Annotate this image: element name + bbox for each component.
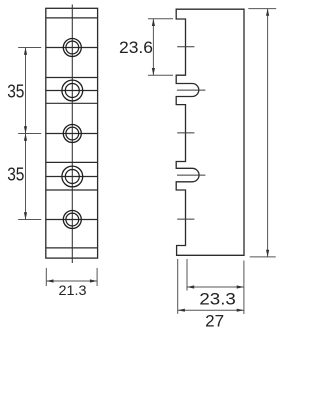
hole 2 outer circle <box>62 80 83 101</box>
dim 35 extension line at hole 5 <box>18 219 41 221</box>
dim 23.6 top arrow <box>152 19 155 26</box>
dim 27 left arrow <box>178 309 185 312</box>
overall height top arrow <box>266 9 269 16</box>
front view vertical centerline <box>71 5 73 264</box>
front view hole row line 2 <box>46 90 98 92</box>
front view top band line <box>46 17 98 19</box>
dim 35 arrow down at hole 3 <box>24 126 27 133</box>
side view hole 3 tick <box>177 132 194 134</box>
front view bottom band line <box>46 247 98 249</box>
hole 2 inner circle <box>65 84 79 98</box>
overall height bottom arrow <box>266 250 269 257</box>
front view band line above hole 2 <box>46 77 98 79</box>
dim 27 left extension line <box>177 259 179 314</box>
hole 5 outer circle <box>63 211 81 229</box>
svg-text:35: 35 <box>7 165 24 185</box>
dim 21.3 dimension line <box>46 280 97 282</box>
front view hole row line 3 <box>46 133 98 135</box>
front view body outline <box>46 8 98 258</box>
svg-text:35: 35 <box>7 81 24 101</box>
front view band line below hole 2 <box>46 102 98 104</box>
dim 35 dimension line <box>25 48 27 220</box>
dim 23.3 dimension line <box>187 286 244 288</box>
dim 23.6 top extension line <box>148 18 173 20</box>
svg-text:21.3: 21.3 <box>59 282 87 298</box>
dim 23.3 and 27 shared right extension line <box>243 261 245 315</box>
svg-text:23.3: 23.3 <box>199 289 236 308</box>
side view slot 1 centerline <box>177 89 205 91</box>
dim 21.3 left extension line <box>45 268 47 286</box>
dim 21.3 right arrow <box>90 279 97 282</box>
overall height bottom extension line <box>250 256 276 258</box>
svg-text:27: 27 <box>205 312 224 330</box>
front view band line above hole 4 <box>46 161 98 163</box>
dim 23.3 right arrow <box>237 285 244 288</box>
dim 23.6 bottom extension line <box>148 74 173 76</box>
dim 27 dimension line <box>178 309 244 311</box>
hole 3 outer circle <box>63 125 81 143</box>
hole 4 inner circle <box>65 170 79 184</box>
dim 23.6 bottom arrow <box>152 68 155 75</box>
dim 23.3 left extension line <box>186 259 188 291</box>
dim 35 extension line at hole 3 <box>18 133 41 135</box>
dim 21.3 right extension line <box>96 268 98 286</box>
overall height top extension line <box>248 8 276 10</box>
dim 23.3 left arrow <box>187 285 194 288</box>
svg-text:23.6: 23.6 <box>119 38 153 57</box>
front view hole row line 1 <box>46 47 98 49</box>
side view hole 1 tick <box>177 46 194 48</box>
dim 27 right arrow <box>237 309 244 312</box>
side view hole 5 tick <box>177 218 194 220</box>
front view hole row line 4 <box>46 176 98 178</box>
hole 1 outer circle <box>63 39 81 57</box>
hole 3 inner circle <box>66 127 79 140</box>
overall height dimension line <box>267 9 269 257</box>
front view hole row line 5 <box>46 219 98 221</box>
front view band line below hole 4 <box>46 189 98 191</box>
side view slot 2 centerline <box>177 174 205 176</box>
hole 5 inner circle <box>66 213 79 226</box>
dim 35 arrow up at hole 3 <box>24 134 27 141</box>
dim 35 extension line at hole 1 <box>18 47 41 49</box>
dim 21.3 left arrow <box>46 279 53 282</box>
hole 4 outer circle <box>62 166 83 187</box>
hole 1 inner circle <box>66 41 79 54</box>
dim 35 arrow up at hole 1 <box>24 48 27 55</box>
side view body outline <box>176 9 244 255</box>
dim 23.6 dimension line <box>152 19 154 75</box>
dim 35 arrow down at hole 5 <box>24 212 27 219</box>
